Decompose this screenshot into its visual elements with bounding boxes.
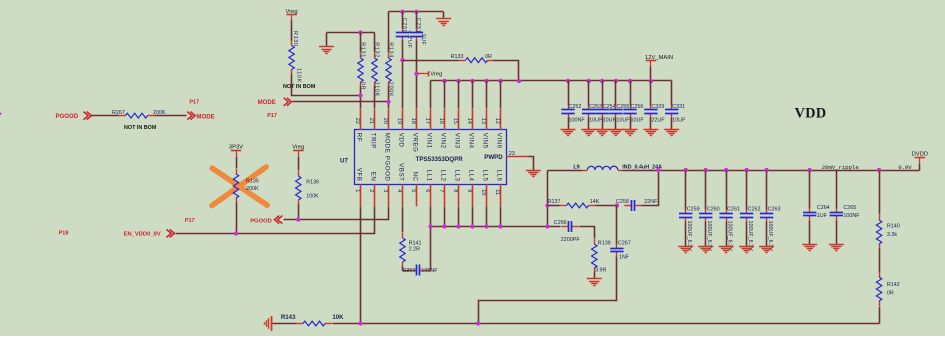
svg-text:2200PF: 2200PF <box>561 237 581 243</box>
svg-text:U7: U7 <box>340 158 348 165</box>
svg-text:VIN2: VIN2 <box>440 133 447 149</box>
wire C253 to ground <box>588 118 590 130</box>
svg-text:1UF: 1UF <box>817 213 828 219</box>
junction bus / C252 <box>566 79 570 83</box>
ground PWPD <box>526 171 541 177</box>
junction VIN bus / pin12 <box>498 79 502 83</box>
svg-text:NOT IN BOM: NOT IN BOM <box>283 84 316 90</box>
junction LL bus / pin10 <box>484 224 488 228</box>
U7 pin 1 (VFB) stub+number+name <box>354 168 363 206</box>
label C255 <box>616 104 629 110</box>
svg-text:15: 15 <box>452 118 458 124</box>
wire C267 riser <box>616 206 618 245</box>
wire LL to R137 <box>548 205 560 207</box>
wire R131 to pin22 <box>360 87 362 109</box>
junction output bus / C261 <box>724 168 728 172</box>
label C262 <box>748 206 761 212</box>
wire output bus VDD <box>659 170 920 172</box>
svg-text:C329: C329 <box>651 104 664 110</box>
resistor R140 <box>876 215 881 249</box>
junction LL bus / pin7 <box>442 224 446 228</box>
label P17 (MODE in) <box>267 113 277 119</box>
label C260 <box>707 206 720 212</box>
svg-text:Vreg: Vreg <box>430 72 442 78</box>
wire bus to C255 <box>615 81 617 106</box>
label 200K (R267) <box>153 110 166 116</box>
svg-text:VDD: VDD <box>795 106 827 122</box>
wire C329 to ground <box>650 118 652 130</box>
IC U7 TPS53353DQPR body <box>355 130 507 185</box>
junction bus / C329 / 12V_MAIN <box>649 79 653 83</box>
junction output bus / C263 <box>764 168 768 172</box>
svg-text:MODE: MODE <box>258 99 276 106</box>
wire pin7 to LL bus <box>444 207 446 227</box>
svg-text:VIN4: VIN4 <box>468 133 475 149</box>
label 100NF (C269) <box>421 268 438 274</box>
svg-text:12V_MAIN: 12V_MAIN <box>645 55 673 61</box>
svg-text:C266: C266 <box>554 220 567 226</box>
svg-text:8: 8 <box>452 189 458 192</box>
svg-text:22: 22 <box>354 118 360 124</box>
wire Vreg to R130 <box>291 21 293 41</box>
U7 pin 2 (EN) stub+number+name <box>368 172 377 207</box>
svg-text:PWPD: PWPD <box>484 154 503 161</box>
svg-text:R139: R139 <box>598 241 611 247</box>
resistor R133 <box>459 58 495 63</box>
svg-text:Vreg: Vreg <box>292 145 304 151</box>
ground C264 <box>802 245 817 251</box>
svg-text:0.9V: 0.9V <box>898 164 912 171</box>
resistor R130 <box>289 41 294 75</box>
ground C255 <box>608 130 623 136</box>
wire rail to C250 <box>402 12 404 29</box>
capacitor C252 <box>561 105 574 118</box>
wire MODE port to pin20 column <box>293 101 389 103</box>
svg-text:200K: 200K <box>246 186 259 192</box>
junction LL bus / pin11 <box>498 224 502 228</box>
label 1UF (C264) <box>817 213 828 219</box>
svg-text:LL4: LL4 <box>468 170 475 182</box>
inductor L9 <box>583 166 623 170</box>
svg-text:VREG: VREG <box>412 133 419 153</box>
wire pin11 to LL bus <box>500 207 502 227</box>
junction bus / C256 <box>628 79 632 83</box>
label R133 <box>451 54 464 60</box>
svg-text:P17: P17 <box>189 100 199 106</box>
ground C256 <box>623 130 638 136</box>
svg-text:C263: C263 <box>768 206 781 212</box>
svg-text:100NF: 100NF <box>843 213 860 219</box>
wire rail to C251 <box>416 12 418 29</box>
svg-text:3: 3 <box>382 189 388 192</box>
junction VIN bus / pin13 <box>484 79 488 83</box>
wire pin17 riser <box>430 81 432 109</box>
resistor R131 <box>358 53 363 87</box>
wire C261 to ground <box>726 222 728 247</box>
wire pin6 to LL bus <box>430 207 432 227</box>
ground C259 <box>678 247 693 253</box>
label C253 <box>589 104 602 110</box>
wire R137 to C258 <box>596 205 617 207</box>
label 100UF_6.3V (C262) (rotated) <box>747 221 753 252</box>
svg-text:14K: 14K <box>590 199 600 205</box>
svg-text:PGOOD: PGOOD <box>250 219 272 225</box>
wire C250 to pin19 <box>402 41 404 109</box>
svg-text:RF: RF <box>356 133 363 142</box>
junction C251 / Vreg tap <box>414 72 418 76</box>
wire top ground rail <box>389 11 444 13</box>
wire bus to C259 <box>685 171 687 210</box>
label 100NF (C265) <box>843 213 860 219</box>
wire Vreg to R136 <box>298 157 300 171</box>
label R132 (rotated) <box>374 42 380 58</box>
junction EN / R135 <box>234 231 238 235</box>
label 200K (R134) (rotated) <box>387 82 393 97</box>
wire bus to C260 <box>705 171 707 210</box>
capacitor C250 <box>396 28 409 41</box>
port MODE (input) <box>258 98 292 106</box>
svg-text:19: 19 <box>396 118 402 124</box>
label P17 (PGOOD) <box>185 218 195 224</box>
resistor R143 <box>296 321 332 326</box>
label 100UF_6.3V (C259) (rotated) <box>686 221 692 252</box>
wire R141 to C269 <box>403 267 410 271</box>
U7 pin 12 (VIN6) stub+number+name <box>494 109 503 149</box>
ground R143 (sideways) <box>265 316 272 331</box>
ground C260 <box>698 247 713 253</box>
capacitor C260 <box>699 209 712 222</box>
U7 pin 10 (LL5) stub+number+name <box>480 170 489 207</box>
junction VIN bus / pin16 <box>442 79 446 83</box>
svg-text:R137: R137 <box>548 199 561 205</box>
svg-text:LL2: LL2 <box>440 170 447 182</box>
wire C254 to ground <box>602 118 604 130</box>
svg-text:PGOOD: PGOOD <box>56 113 79 120</box>
label 10UF (C331) <box>672 117 686 123</box>
svg-text:LL6: LL6 <box>496 170 503 182</box>
power symbol Vreg (R136) <box>292 145 304 157</box>
svg-text:C261: C261 <box>727 206 740 212</box>
junction C250 / R133 <box>400 58 404 62</box>
capacitor C261 <box>719 209 732 222</box>
wire bus to C331 <box>671 81 673 106</box>
svg-text:R140: R140 <box>887 224 900 230</box>
svg-text:3.3k: 3.3k <box>887 232 897 238</box>
junction top rail / C250 <box>400 10 404 14</box>
label 22NF (C258) <box>644 199 658 205</box>
label 3.9R (R139) <box>595 267 606 273</box>
svg-text:110K: 110K <box>296 68 302 83</box>
label C256 <box>631 104 644 110</box>
wire EN port to pin2 <box>176 207 375 234</box>
svg-text:VIN3: VIN3 <box>454 133 461 149</box>
wire R133 to VIN bus <box>494 61 519 81</box>
svg-text:C265: C265 <box>843 205 856 211</box>
svg-text:C262: C262 <box>748 206 761 212</box>
wire rail to R134 <box>388 12 390 53</box>
capacitor C262 <box>740 209 753 222</box>
svg-text:C259: C259 <box>687 206 700 212</box>
resistor R132 <box>372 53 377 87</box>
wire 12V_MAIN to bus <box>650 67 652 81</box>
label 110K (R132) (rotated) <box>374 82 380 97</box>
svg-text:23: 23 <box>509 151 515 157</box>
svg-text:R134: R134 <box>387 42 393 58</box>
label R130 (rotated) <box>292 31 298 47</box>
label C265 <box>843 205 856 211</box>
svg-text:2.2R: 2.2R <box>409 247 420 253</box>
svg-text:1: 1 <box>354 189 360 192</box>
label 10K (R143) <box>332 314 344 321</box>
svg-text:LL1: LL1 <box>426 170 433 182</box>
no-populate X over R135 <box>212 167 267 206</box>
wire bus to C264 <box>809 171 811 209</box>
svg-text:R142: R142 <box>887 282 900 288</box>
power symbol Vreg (R130) <box>286 9 298 21</box>
wire C252 to ground <box>568 118 570 130</box>
junction output / C258 riser <box>656 168 660 172</box>
wire LL corner to L9 <box>548 170 583 172</box>
U7 pin 7 (LL2) stub+number+name <box>438 170 447 207</box>
wire bus to C254 <box>602 81 604 106</box>
capacitor C331 <box>665 105 678 118</box>
U7 pin 18 (VREG) stub+number+name <box>410 109 419 152</box>
junction R130 / R131 <box>358 93 362 97</box>
svg-text:17: 17 <box>424 118 430 124</box>
label C264 <box>817 205 830 211</box>
svg-text:20mV_ripple: 20mV_ripple <box>822 164 859 171</box>
svg-text:100K: 100K <box>306 194 319 200</box>
label 10UF (C255) <box>616 117 630 123</box>
svg-text:100NF: 100NF <box>569 117 586 123</box>
resistor R142 <box>876 272 881 306</box>
label C263 <box>768 206 781 212</box>
wire C265 to ground <box>836 221 838 245</box>
svg-text:22NF: 22NF <box>644 199 658 205</box>
wire bus to C263 <box>766 171 768 210</box>
wire C256 to ground <box>630 118 632 130</box>
svg-text:C252: C252 <box>569 104 582 110</box>
wire C259 to ground <box>685 222 687 247</box>
label P17 (MODE out) <box>189 100 199 106</box>
wire C331 to ground <box>671 118 673 130</box>
junction VIN bus / pin15 <box>456 79 460 83</box>
svg-text:R132: R132 <box>374 42 380 58</box>
svg-text:1UF: 1UF <box>420 34 426 46</box>
svg-text:18: 18 <box>410 118 416 124</box>
label 100NF (C252) <box>569 117 586 123</box>
label C254 <box>603 104 616 110</box>
svg-text:0R: 0R <box>485 54 492 60</box>
capacitor C265 <box>830 208 843 221</box>
wire bus to C252 <box>568 81 570 106</box>
capacitor C253 <box>582 105 595 118</box>
wire PGOOD port to pin3 <box>284 207 389 220</box>
wire R267 to MODE port <box>155 115 187 117</box>
svg-text:TPS53353DQPR: TPS53353DQPR <box>416 156 464 163</box>
svg-text:C331: C331 <box>672 104 685 110</box>
wire PGOOD port to R267 <box>92 115 119 117</box>
svg-text:7: 7 <box>438 189 444 192</box>
port PGOOD (input, top-left) <box>56 112 92 121</box>
wire pin8 to LL bus <box>458 207 460 227</box>
U7 pin 11 (LL6) stub+number+name <box>494 170 503 207</box>
wire C267 to feedback bus <box>479 257 617 324</box>
wire C266 to R139 <box>580 227 595 239</box>
wire bus to C329 <box>650 81 652 106</box>
wire DVDD to output bus <box>919 164 921 171</box>
junction output bus / C262 <box>744 168 748 172</box>
resistor R139 <box>592 239 597 273</box>
junction PGOOD / R136 <box>296 217 300 221</box>
junction LL riser / R137 <box>545 203 549 207</box>
ground C261 <box>719 247 734 253</box>
label 200K (R135) <box>246 186 259 192</box>
svg-text:P17: P17 <box>185 218 195 224</box>
wire bus to C261 <box>726 171 728 210</box>
label R143 <box>281 314 296 321</box>
svg-text:R133: R133 <box>451 54 464 60</box>
junction LL bus / riser <box>545 224 549 228</box>
label C267 <box>618 241 631 247</box>
wire bus to C253 <box>588 81 590 106</box>
wire bus to C265 <box>836 171 838 209</box>
wire pin1 VFB to feedback bus <box>360 207 362 324</box>
wire C263 to ground <box>766 222 768 247</box>
power symbol 12V_MAIN <box>645 55 673 67</box>
ground C254 <box>595 130 610 136</box>
svg-text:3P3V: 3P3V <box>229 145 243 151</box>
svg-text:EN: EN <box>370 172 377 182</box>
U7 pin 20 (MODE) stub+number+name <box>382 109 391 153</box>
svg-text:MODE: MODE <box>196 113 214 120</box>
label C261 <box>727 206 740 212</box>
label 100UF_6.3V (C260) (rotated) <box>706 221 712 252</box>
label U7 <box>340 158 348 165</box>
label C269 <box>403 268 416 274</box>
svg-text:10UF: 10UF <box>616 117 630 123</box>
U7 pin 23 (PWPD) stub <box>506 151 528 157</box>
svg-text:EN_VDD0_8V: EN_VDD0_8V <box>124 232 161 238</box>
label R142 <box>887 282 900 288</box>
U7 pin 17 (VIN1) stub+number+name <box>424 109 433 149</box>
svg-text:NOT IN BOM: NOT IN BOM <box>124 125 157 131</box>
svg-text:R135: R135 <box>246 179 259 185</box>
resistor R267 <box>119 113 155 118</box>
junction bus / C253 <box>587 79 591 83</box>
label 110K (R130) (rotated) <box>296 68 302 83</box>
label 10UF (C256) <box>631 117 645 123</box>
wire C269 to LL1 column <box>427 227 431 271</box>
label 10UF (C254) <box>603 117 617 123</box>
label 0R (R133) <box>485 54 492 60</box>
wire pin9 to LL bus <box>472 207 474 227</box>
U7 pin 16 (VIN2) stub+number+name <box>438 109 447 149</box>
label L9 <box>573 164 579 170</box>
wire pin15 riser <box>458 81 460 109</box>
label C250 (rotated) <box>401 18 407 34</box>
svg-text:PGOOD: PGOOD <box>384 156 391 182</box>
label R136 <box>306 180 319 186</box>
label 4.7UF (C250) (rotated) <box>406 31 412 49</box>
label R139 <box>598 241 611 247</box>
svg-text:C258: C258 <box>616 199 629 205</box>
svg-text:11: 11 <box>494 189 500 195</box>
wire R139 to ground <box>594 273 596 279</box>
wire R136 to PGOOD wire <box>298 205 300 220</box>
junction output bus / C259 <box>684 168 688 172</box>
wire pin14 riser <box>472 81 474 109</box>
svg-text:VFB: VFB <box>356 168 363 182</box>
label 0R (R131) (rotated) <box>360 82 366 90</box>
wire pin4 to R141 <box>402 207 404 233</box>
wire R135 to EN wire <box>236 203 238 234</box>
svg-text:10UF: 10UF <box>672 117 686 123</box>
U7 pin 5 (NC) stub+number+name <box>410 171 419 206</box>
label 100UF_6.3V (C263) (rotated) <box>767 221 773 252</box>
label R131 (rotated) <box>360 42 366 58</box>
port PGOOD (output) <box>250 216 282 225</box>
svg-text:LL3: LL3 <box>454 170 461 182</box>
svg-text:R143: R143 <box>281 314 296 321</box>
junction output bus / R140 <box>877 168 881 172</box>
svg-text:VDD: VDD <box>398 133 405 148</box>
junction MODE / R134 <box>386 100 390 104</box>
ground C252 <box>561 130 576 136</box>
ground R139 <box>587 279 602 286</box>
capacitor C267 <box>610 244 623 256</box>
svg-text:6: 6 <box>424 189 430 192</box>
junction C258 / C267 <box>615 203 619 207</box>
label NOT IN BOM (R267) <box>124 125 157 131</box>
capacitor C254 <box>596 105 609 118</box>
ground C262 <box>739 247 754 253</box>
svg-text:VIN5: VIN5 <box>482 133 489 149</box>
svg-text:Vreg: Vreg <box>286 9 298 15</box>
svg-text:MODE: MODE <box>384 133 391 154</box>
svg-text:10UF: 10UF <box>631 117 645 123</box>
junction VIN bus / pin14 <box>470 79 474 83</box>
svg-text:R136: R136 <box>306 180 319 186</box>
junction LL bus / pin9 <box>470 224 474 228</box>
wire R134 to pin20 <box>388 87 390 109</box>
label R137 <box>548 199 561 205</box>
wire bus to C256 <box>630 81 632 106</box>
U7 pin 6 (LL1) stub+number+name <box>424 170 433 207</box>
capacitor C264 <box>803 208 816 221</box>
label C251 (rotated) <box>415 18 421 34</box>
U7 pin 8 (LL3) stub+number+name <box>452 170 461 207</box>
wire rail to R131 <box>360 33 362 53</box>
off-page connector fragment (left edge) <box>0 112 2 115</box>
label NOT IN BOM (R130) <box>283 84 316 90</box>
wire pin10 to LL bus <box>486 207 488 227</box>
svg-text:22UF: 22UF <box>651 117 665 123</box>
wire rail to R132 <box>374 33 376 53</box>
capacitor C266 <box>561 221 579 232</box>
junction bus / C255 <box>614 79 618 83</box>
wire pin12 riser <box>500 81 502 109</box>
svg-text:10: 10 <box>480 189 486 195</box>
svg-text:0R: 0R <box>887 291 894 297</box>
U7 pin 4 (VBST) stub+number+name <box>396 163 405 206</box>
wire R132 to pin21 <box>374 87 376 109</box>
label 14K (R137) <box>590 199 600 205</box>
label C329 <box>651 104 664 110</box>
capacitor C263 <box>760 209 773 222</box>
svg-text:VBST: VBST <box>398 163 405 181</box>
label P18 <box>59 231 69 237</box>
